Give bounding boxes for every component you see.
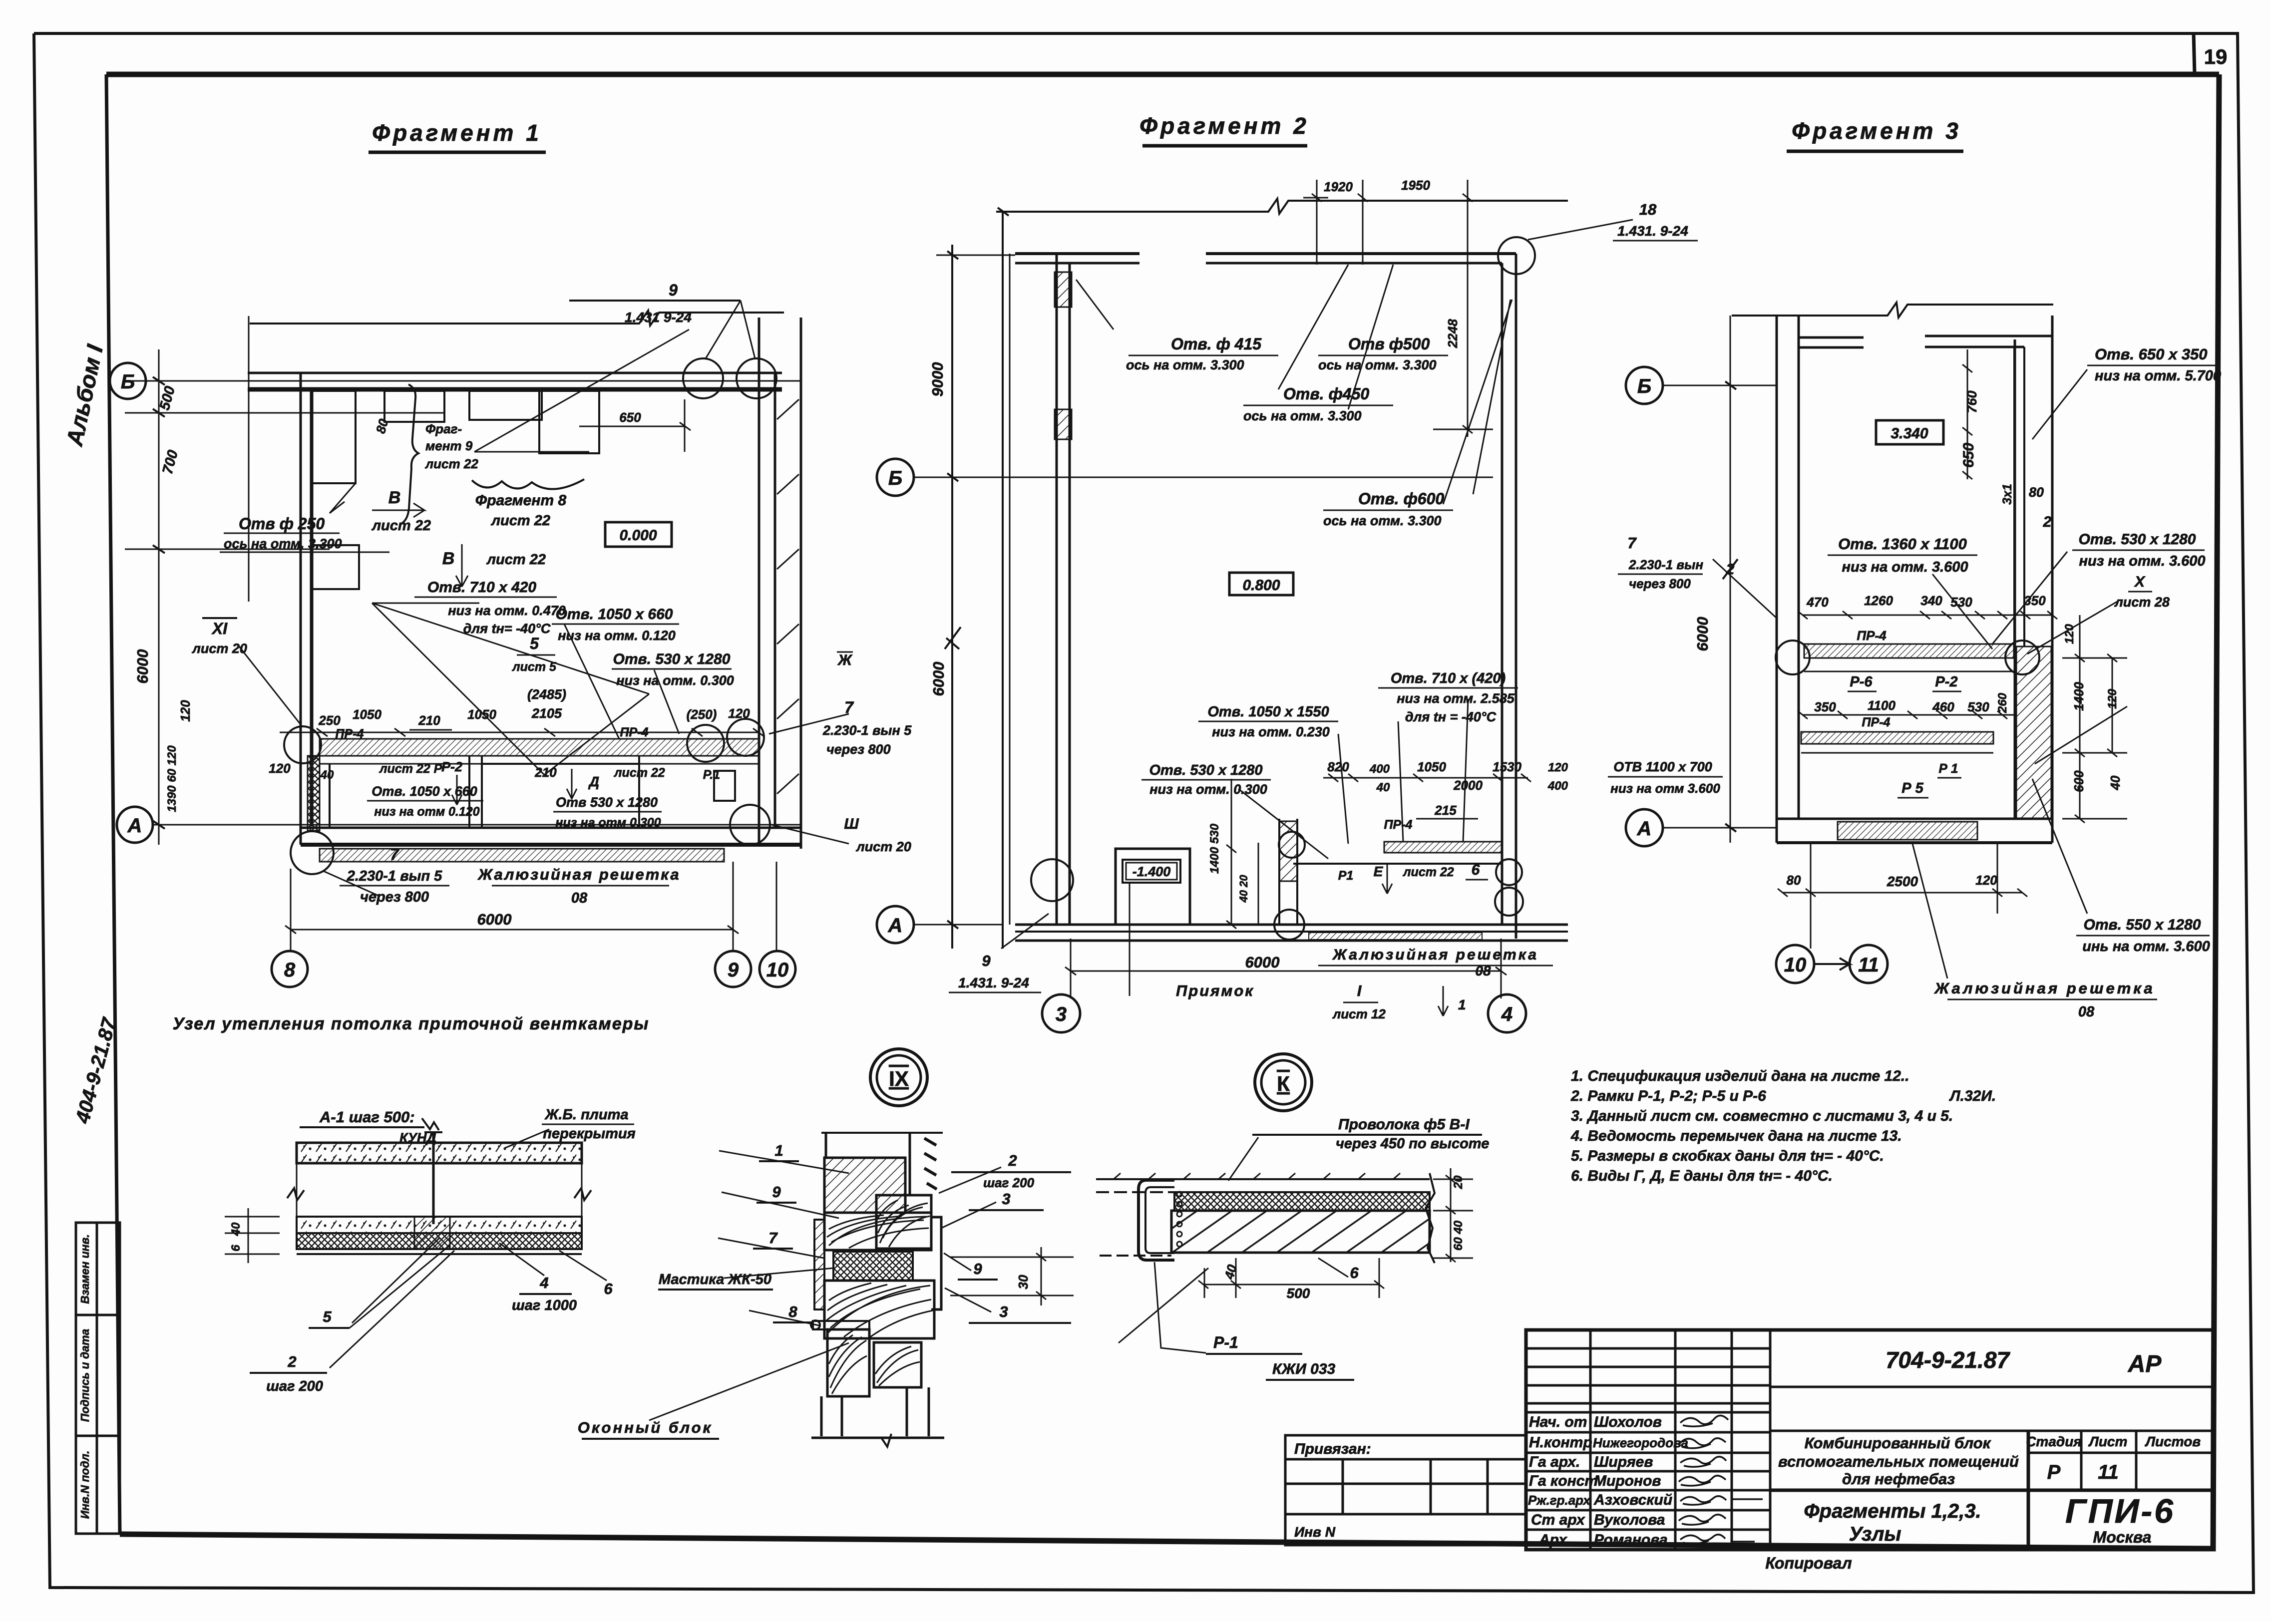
svg-text:Отв. 550 х 1280: Отв. 550 х 1280 — [2084, 917, 2201, 933]
svg-text:Инв.N подл.: Инв.N подл. — [78, 1451, 91, 1519]
svg-text:1050: 1050 — [467, 707, 496, 722]
dim row above grille — [280, 732, 759, 733]
bracket — [813, 1321, 869, 1329]
svg-text:Жалюзийная решетка: Жалюзийная решетка — [1332, 947, 1538, 963]
svg-text:Отв. 1360 х 1100: Отв. 1360 х 1100 — [1838, 535, 1967, 553]
svg-text:ось на отм. 3.300: ось на отм. 3.300 — [1323, 513, 1442, 528]
svg-text:лист 22: лист 22 — [490, 513, 550, 529]
svg-text:2248: 2248 — [1445, 319, 1460, 348]
svg-text:А: А — [888, 915, 903, 937]
svg-text:Отв. 1050 х 660: Отв. 1050 х 660 — [372, 784, 477, 799]
svg-text:1100: 1100 — [1868, 698, 1895, 713]
svg-text:Фрагмент 2: Фрагмент 2 — [1139, 113, 1309, 139]
svg-text:40: 40 — [229, 1222, 243, 1236]
right wall band — [758, 318, 760, 845]
svg-text:I: I — [1357, 982, 1362, 999]
svg-text:650: 650 — [619, 410, 641, 425]
svg-text:низ на отм. 0.300: низ на отм. 0.300 — [616, 673, 734, 688]
signatures — [1679, 1415, 1763, 1544]
svg-text:9: 9 — [728, 959, 739, 981]
svg-text:через 800: через 800 — [1629, 576, 1691, 591]
svg-text:Отв. 1050 х 1550: Отв. 1050 х 1550 — [1207, 704, 1329, 720]
svg-text:250: 250 — [318, 713, 341, 728]
right wall — [1501, 263, 1504, 925]
svg-text:шаг 200: шаг 200 — [266, 1378, 323, 1394]
svg-text:3: 3 — [999, 1303, 1008, 1320]
svg-text:Отв. ф 415: Отв. ф 415 — [1171, 335, 1262, 353]
leader 9 bottom left — [1001, 914, 1049, 949]
svg-text:1530: 1530 — [1493, 759, 1521, 774]
pit box — [1116, 849, 1190, 924]
top thin layer with ticks — [1096, 1178, 1430, 1180]
svg-text:5: 5 — [323, 1308, 332, 1325]
bottom dim — [1203, 1284, 1379, 1286]
lower frame wood — [827, 1329, 869, 1396]
svg-text:Жалюзийная решетка: Жалюзийная решетка — [477, 866, 680, 883]
interior partition right of pit — [1278, 819, 1280, 925]
svg-text:Арх: Арх — [1538, 1532, 1567, 1548]
left wall — [300, 373, 302, 845]
svg-text:0.800: 0.800 — [1242, 577, 1280, 594]
svg-text:Ж: Ж — [837, 652, 853, 668]
fragment 1 texts — [134, 281, 912, 928]
svg-text:низ на отм. 0.300: низ на отм. 0.300 — [1149, 782, 1267, 797]
svg-text:В: В — [442, 549, 455, 568]
svg-text:Отв. 530 х 1280: Отв. 530 х 1280 — [613, 651, 731, 667]
svg-text:инь на отм. 3.600: инь на отм. 3.600 — [2082, 939, 2210, 955]
svg-text:Отв. 650 х 350: Отв. 650 х 350 — [2095, 345, 2208, 363]
sill verticals — [821, 1387, 929, 1436]
svg-text:Миронов: Миронов — [1594, 1473, 1661, 1489]
svg-text:лист 22: лист 22 — [486, 552, 546, 568]
svg-text:А-1 шаг 500:: А-1 шаг 500: — [319, 1108, 415, 1126]
svg-text:ОТВ 1100 х 700: ОТВ 1100 х 700 — [1613, 759, 1712, 774]
svg-text:704-9-21.87: 704-9-21.87 — [1886, 1347, 2010, 1373]
svg-text:2. Рамки Р-1, Р-2; Р-5 и Р: 2. Рамки Р-1, Р-2; Р-5 и Р-6 — [1570, 1088, 1766, 1104]
seal cross hatch — [833, 1252, 913, 1281]
svg-text:6000: 6000 — [930, 662, 947, 696]
svg-text:Ж.Б. плита: Ж.Б. плита — [544, 1107, 629, 1123]
right dim lines — [2079, 615, 2081, 819]
svg-text:Е: Е — [1374, 864, 1384, 879]
svg-text:Листов: Листов — [2145, 1434, 2201, 1449]
right dims — [1450, 1168, 1452, 1262]
svg-text:Азховский: Азховский — [1593, 1492, 1672, 1508]
svg-text:шаг 1000: шаг 1000 — [512, 1298, 577, 1313]
svg-text:19: 19 — [2204, 45, 2228, 68]
svg-text:5: 5 — [530, 635, 539, 652]
dim row 2 — [1803, 714, 2015, 716]
leader 2.230-1 bottom left — [324, 871, 379, 896]
svg-text:(2485): (2485) — [527, 687, 566, 702]
svg-text:через 800: через 800 — [360, 889, 429, 905]
svg-text:260: 260 — [1996, 692, 2009, 713]
svg-text:700: 700 — [160, 448, 181, 476]
left margin attribute boxes — [76, 1223, 120, 1534]
svg-text:Р-1: Р-1 — [1213, 1333, 1238, 1351]
right break — [1426, 1173, 1435, 1263]
right side dividers — [1770, 1386, 2214, 1388]
top interior rectangles — [384, 391, 444, 422]
svg-text:2000: 2000 — [1453, 778, 1483, 793]
svg-text:Б: Б — [121, 371, 135, 393]
svg-text:6000: 6000 — [134, 650, 151, 684]
svg-text:1.431. 9-24: 1.431. 9-24 — [958, 975, 1029, 990]
fragment 3 texts — [1694, 345, 2221, 1020]
svg-text:шаг 200: шаг 200 — [983, 1175, 1035, 1190]
signature grid verticals — [1589, 1330, 1592, 1550]
right wall hatch marks — [777, 399, 799, 794]
grille band 2 — [1801, 732, 1993, 744]
svg-text:820: 820 — [1327, 759, 1349, 774]
svg-text:8: 8 — [284, 959, 296, 981]
svg-text:Р-2: Р-2 — [441, 759, 462, 774]
svg-text:К: К — [1277, 1072, 1290, 1095]
svg-text:ось на отм. 3.300: ось на отм. 3.300 — [1318, 357, 1437, 372]
svg-text:210: 210 — [534, 765, 557, 780]
svg-text:0.000: 0.000 — [619, 527, 657, 544]
top dim line with break — [996, 199, 1568, 214]
svg-text:АР: АР — [2128, 1351, 2162, 1377]
lower wood band — [824, 1281, 934, 1338]
svg-text:2: 2 — [287, 1353, 296, 1370]
svg-text:Рж.гр.арх: Рж.гр.арх — [1528, 1493, 1591, 1508]
leader from corner to 18 label — [1528, 220, 1633, 240]
bottom grille below wall — [320, 849, 724, 862]
svg-text:80: 80 — [1787, 873, 1801, 888]
svg-text:4. Ведомость перемычек дана: 4. Ведомость перемычек дана на листе 13. — [1570, 1128, 1902, 1144]
svg-text:7: 7 — [768, 1229, 778, 1247]
svg-text:Р 1: Р 1 — [1938, 761, 1958, 776]
svg-text:120: 120 — [728, 706, 750, 721]
right jamb — [931, 1217, 941, 1309]
svg-text:А: А — [127, 815, 142, 837]
leader to left labels — [1713, 559, 1778, 619]
svg-text:7: 7 — [1627, 534, 1637, 552]
svg-text:1050: 1050 — [353, 707, 381, 722]
left dims — [248, 1208, 249, 1263]
hatched junction block — [1055, 272, 1072, 307]
svg-text:4: 4 — [1501, 1003, 1513, 1025]
dim rows — [1803, 615, 2052, 616]
svg-text:2500: 2500 — [1887, 874, 1918, 889]
air gap borders — [296, 1163, 298, 1224]
svg-text:Шохолов: Шохолов — [1594, 1414, 1662, 1430]
leaders — [1912, 369, 2127, 978]
left dim line — [1730, 316, 1731, 843]
svg-text:для нефтебаз: для нефтебаз — [1842, 1470, 1955, 1488]
left vertical dim line — [158, 349, 160, 845]
svg-text:120: 120 — [269, 761, 291, 776]
dim 650 inside — [579, 426, 685, 427]
svg-text:6000: 6000 — [477, 911, 512, 928]
svg-text:1390 60 120: 1390 60 120 — [165, 745, 179, 812]
svg-text:ПР-4: ПР-4 — [1862, 715, 1891, 729]
svg-text:6000: 6000 — [1245, 954, 1280, 971]
svg-text:Ст арх: Ст арх — [1531, 1512, 1585, 1528]
svg-text:1920: 1920 — [1324, 179, 1353, 194]
bottom wall — [301, 827, 801, 829]
svg-text:Отв. 710 х 420: Отв. 710 х 420 — [427, 579, 537, 596]
svg-text:1. Спецификация изделий д: 1. Спецификация изделий дана на листе 12… — [1571, 1068, 1909, 1084]
svg-text:IX: IX — [889, 1067, 909, 1090]
svg-text:9000: 9000 — [929, 362, 946, 397]
inner partition lines bottom zone — [329, 764, 331, 828]
svg-text:Москва: Москва — [2093, 1528, 2152, 1546]
inner thick frame top — [106, 72, 2219, 77]
svg-text:40: 40 — [320, 768, 334, 782]
svg-text:Фрагменты 1,2,3.: Фрагменты 1,2,3. — [1804, 1500, 1981, 1522]
leader lines left — [649, 1151, 849, 1420]
svg-text:3х1: 3х1 — [2000, 484, 2014, 505]
svg-text:3: 3 — [1056, 1003, 1067, 1025]
svg-text:А: А — [1637, 818, 1652, 840]
svg-text:Р-2: Р-2 — [1935, 674, 1957, 690]
middle band wood — [824, 1213, 931, 1250]
svg-text:40: 40 — [2108, 775, 2123, 790]
svg-text:Д: Д — [588, 774, 599, 789]
svg-text:1: 1 — [774, 1142, 783, 1159]
svg-text:10: 10 — [766, 959, 789, 981]
svg-text:400: 400 — [1547, 779, 1568, 793]
svg-text:530: 530 — [1967, 699, 1989, 714]
svg-text:120: 120 — [2106, 688, 2119, 709]
svg-text:1260: 1260 — [1864, 593, 1893, 608]
svg-text:Га арх.: Га арх. — [1529, 1454, 1580, 1470]
top slab — [297, 1143, 582, 1163]
svg-text:1050: 1050 — [1417, 759, 1446, 774]
svg-text:лист 20: лист 20 — [191, 641, 247, 656]
axis circles — [110, 363, 795, 987]
top dim line with break — [250, 311, 784, 325]
svg-text:Проволока ф5 В-I: Проволока ф5 В-I — [1338, 1116, 1470, 1133]
svg-text:40: 40 — [1376, 781, 1390, 794]
svg-text:3. Данный лист см. совме: 3. Данный лист см. совместно с листами 3… — [1571, 1108, 1953, 1124]
svg-text:низ на отм 0.300: низ на отм 0.300 — [555, 816, 661, 830]
svg-text:20: 20 — [1452, 1175, 1465, 1189]
svg-text:1400: 1400 — [2071, 682, 2086, 711]
svg-text:350: 350 — [1814, 699, 1836, 714]
leader lines from Отв 250 — [330, 483, 356, 513]
svg-text:530: 530 — [1950, 595, 1972, 610]
svg-text:Оконный блок: Оконный блок — [578, 1419, 713, 1436]
svg-text:760: 760 — [1964, 390, 1979, 413]
junction circles — [1031, 859, 1073, 901]
svg-text:Привязан:: Привязан: — [1294, 1441, 1371, 1457]
svg-text:низ на отм. 5.700: низ на отм. 5.700 — [2095, 368, 2221, 384]
svg-text:ГПИ-6: ГПИ-6 — [2065, 1492, 2175, 1530]
lintel hatch — [824, 1158, 905, 1213]
inner thick frame bottom — [120, 1534, 2213, 1549]
big hatch band — [1171, 1211, 1430, 1253]
bottom dim line — [1071, 971, 1501, 972]
svg-text:КЖИ 033: КЖИ 033 — [1272, 1361, 1336, 1377]
svg-text:500: 500 — [1287, 1286, 1310, 1301]
svg-text:Р-6: Р-6 — [1850, 674, 1873, 690]
grille band 1 — [1804, 644, 2014, 658]
svg-text:Приямок: Приямок — [1176, 982, 1254, 999]
walls top — [1015, 252, 1139, 255]
svg-text:В: В — [388, 488, 401, 507]
svg-text:Комбинированный блок: Комбинированный блок — [1805, 1434, 1991, 1452]
svg-text:6: 6 — [1350, 1264, 1359, 1282]
weather strip squiggles right — [924, 1138, 937, 1189]
svg-text:Р: Р — [2047, 1461, 2061, 1483]
svg-text:Отв. 530 х 1280: Отв. 530 х 1280 — [2079, 531, 2196, 548]
svg-text:низ на отм. 2.585: низ на отм. 2.585 — [1397, 691, 1515, 706]
svg-text:для tн= -40°С: для tн= -40°С — [463, 621, 551, 636]
svg-text:2.230-1 вын: 2.230-1 вын — [1628, 557, 1703, 572]
svg-text:3.340: 3.340 — [1891, 425, 1928, 442]
svg-text:низ на отм. 0.230: низ на отм. 0.230 — [1212, 724, 1330, 739]
privyazan table — [1285, 1435, 1526, 1545]
svg-text:Отв 530 х 1280: Отв 530 х 1280 — [556, 795, 658, 810]
svg-text:120: 120 — [2063, 624, 2076, 644]
svg-text:30: 30 — [1016, 1275, 1031, 1289]
svg-text:низ на отм. 0.470: низ на отм. 0.470 — [448, 603, 566, 618]
svg-text:Нач. от: Нач. от — [1529, 1414, 1587, 1430]
svg-text:низ на отм 0.120: низ на отм 0.120 — [374, 805, 479, 819]
svg-text:Отв. 710 х (420): Отв. 710 х (420) — [1391, 670, 1506, 686]
svg-text:лист 28: лист 28 — [2114, 595, 2170, 610]
svg-text:ось на отм. 3.300: ось на отм. 3.300 — [1126, 357, 1244, 372]
interior column double line — [1056, 254, 1058, 925]
svg-text:ПР-4: ПР-4 — [336, 727, 364, 741]
leader lines right — [939, 1167, 1001, 1312]
svg-text:лист 22: лист 22 — [614, 766, 665, 780]
axis circles — [877, 459, 1526, 1032]
svg-text:через 800: через 800 — [826, 742, 891, 757]
svg-text:2105: 2105 — [531, 706, 562, 721]
svg-text:лист 20: лист 20 — [855, 839, 911, 854]
svg-text:9: 9 — [982, 952, 991, 970]
svg-text:XI: XI — [211, 620, 228, 638]
fragment 2 texts — [929, 178, 1723, 1021]
svg-text:404-9-21.87: 404-9-21.87 — [71, 1015, 121, 1126]
svg-text:перекрытия: перекрытия — [543, 1126, 635, 1142]
axis lines — [914, 477, 1493, 478]
svg-text:Н.контр: Н.контр — [1529, 1434, 1592, 1451]
bottom dim — [1783, 892, 2022, 894]
svg-text:9: 9 — [669, 281, 678, 299]
svg-text:2.230-1 вып 5: 2.230-1 вып 5 — [347, 868, 442, 884]
signature grid rows (thin top rows) — [1526, 1347, 1770, 1350]
leaders 1050x660 / 530x1280 — [564, 624, 679, 739]
grille strip top — [320, 739, 759, 756]
svg-text:1400 530: 1400 530 — [1208, 823, 1221, 874]
left channel — [1138, 1180, 1174, 1260]
svg-text:08: 08 — [571, 890, 588, 906]
right wall — [2014, 339, 2016, 819]
svg-text:11: 11 — [2098, 1461, 2119, 1483]
svg-text:Инв N: Инв N — [1294, 1524, 1336, 1540]
svg-text:Отв ф 250: Отв ф 250 — [239, 515, 325, 533]
axis Б line — [146, 380, 801, 382]
top dim line with break — [1732, 303, 2053, 318]
bottom dim line — [291, 929, 733, 931]
svg-text:низ на отм 3.600: низ на отм 3.600 — [1610, 781, 1720, 796]
svg-text:6: 6 — [604, 1280, 613, 1298]
svg-text:2.230-1 вын 5: 2.230-1 вын 5 — [822, 723, 912, 738]
leaders otv — [1076, 265, 1512, 504]
svg-text:120: 120 — [1548, 761, 1568, 774]
hanger — [432, 1132, 435, 1224]
shelf / grille ПР-4 — [1384, 842, 1502, 853]
svg-text:Р 5: Р 5 — [1901, 780, 1923, 796]
svg-text:340: 340 — [1920, 593, 1942, 608]
svg-text:Отв. ф450: Отв. ф450 — [1283, 385, 1369, 403]
small top dims — [1316, 180, 1318, 265]
svg-text:650: 650 — [1960, 443, 1977, 468]
svg-text:2: 2 — [1726, 561, 1735, 578]
svg-text:лист 12: лист 12 — [1332, 1006, 1386, 1021]
inner thick frame right — [2213, 74, 2219, 1549]
svg-text:Копировал: Копировал — [1765, 1554, 1852, 1572]
shaft top dims — [1967, 349, 1968, 479]
axis lines — [1663, 385, 1778, 386]
svg-text:Вуколова: Вуколова — [1594, 1512, 1665, 1528]
inner shaft verticals — [2013, 347, 2015, 647]
dim row mid — [1323, 777, 1528, 779]
svg-text:7: 7 — [844, 698, 854, 716]
svg-text:(250): (250) — [687, 707, 717, 722]
left strip hatch — [814, 1220, 824, 1309]
svg-text:Фраг-: Фраг- — [425, 421, 462, 436]
svg-text:лист 5: лист 5 — [512, 660, 557, 674]
svg-text:Мастика ЖК-50: Мастика ЖК-50 — [659, 1272, 771, 1288]
svg-text:низ на отм. 0.120: низ на отм. 0.120 — [558, 628, 676, 643]
big triangle leader (710x420) — [372, 603, 649, 775]
svg-text:ось на отм. 3.300: ось на отм. 3.300 — [1243, 408, 1362, 423]
head wood — [876, 1195, 931, 1249]
svg-text:2: 2 — [1008, 1152, 1017, 1169]
svg-text:Отв. 1050 х 660: Отв. 1050 х 660 — [556, 606, 673, 623]
svg-text:Ширяев: Ширяев — [1594, 1454, 1653, 1470]
svg-text:5. Размеры в скобках даны: 5. Размеры в скобках даны для tн= - 40°С… — [1571, 1148, 1884, 1164]
svg-text:Подпись и дата: Подпись и дата — [78, 1329, 91, 1422]
svg-text:80: 80 — [373, 417, 391, 435]
svg-text:08: 08 — [2078, 1004, 2095, 1020]
svg-text:для tн = -40°С: для tн = -40°С — [1405, 709, 1497, 724]
svg-text:6: 6 — [1472, 862, 1480, 878]
svg-text:лист 22: лист 22 — [371, 518, 431, 534]
leaders below — [330, 1238, 607, 1368]
svg-text:40: 40 — [1221, 1263, 1240, 1281]
svg-text:ось на отм. 3.300: ось на отм. 3.300 — [224, 536, 342, 551]
svg-text:460: 460 — [1932, 699, 1954, 714]
svg-text:1: 1 — [1458, 997, 1466, 1012]
small duct on left wall — [312, 391, 356, 483]
svg-text:Стадия: Стадия — [2026, 1434, 2082, 1449]
svg-text:08: 08 — [1475, 963, 1491, 978]
svg-text:Б: Б — [888, 467, 902, 489]
svg-text:1.431 9-24: 1.431 9-24 — [625, 310, 692, 325]
svg-text:ПР-4: ПР-4 — [620, 725, 649, 739]
svg-text:Альбом I: Альбом I — [61, 342, 108, 449]
svg-text:Отв. 530 х 1280: Отв. 530 х 1280 — [1149, 762, 1262, 778]
svg-text:Жалюзийная решетка: Жалюзийная решетка — [1933, 979, 2155, 997]
svg-text:40 20: 40 20 — [1237, 875, 1250, 903]
axis circles — [1626, 367, 1888, 983]
junction circles — [284, 726, 321, 763]
svg-text:9: 9 — [973, 1260, 982, 1278]
svg-text:Фрагмент 1: Фрагмент 1 — [372, 120, 542, 146]
svg-text:мент 9: мент 9 — [425, 438, 473, 453]
dims above floor, left interior — [1231, 779, 1232, 925]
svg-text:80: 80 — [2029, 485, 2044, 500]
callout 9 line — [569, 300, 741, 302]
svg-text:6: 6 — [229, 1245, 243, 1252]
